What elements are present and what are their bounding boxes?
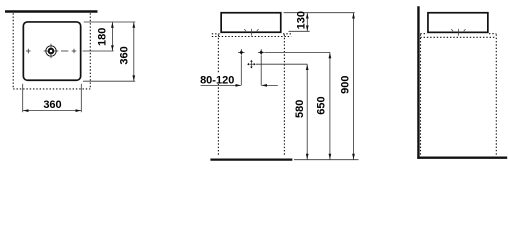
svg-text:360: 360 [43,99,61,111]
svg-text:80-120: 80-120 [200,74,234,86]
svg-text:180: 180 [96,28,108,46]
svg-text:900: 900 [340,76,352,94]
svg-text:360: 360 [118,46,130,64]
svg-text:580: 580 [294,100,306,118]
svg-text:130: 130 [296,11,308,29]
svg-text:650: 650 [316,96,328,114]
